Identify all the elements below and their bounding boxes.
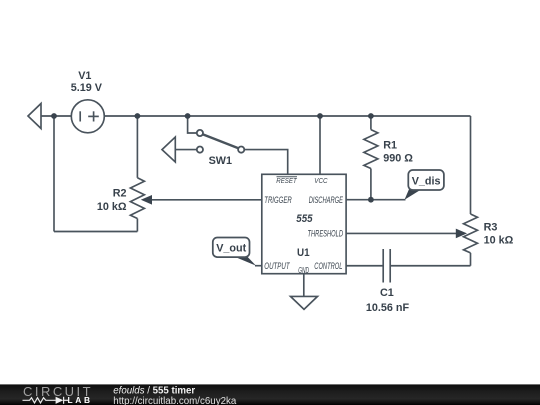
logo resistor zigzag [23, 397, 69, 404]
wire R3 bottom leg [470, 253, 472, 266]
wire R1 bottom leg [370, 169, 372, 200]
svg-text:R1: R1 [383, 140, 397, 152]
switch SW1 contact 1 [197, 130, 203, 136]
svg-text:http://circuitlab.com/c6uy2ka: http://circuitlab.com/c6uy2ka [113, 396, 236, 405]
resistor R3 zigzag [464, 214, 478, 253]
svg-text:DISCHARGE: DISCHARGE [309, 195, 344, 205]
wire OUTPUT stub [255, 265, 262, 267]
wire R2 top leg [136, 116, 138, 178]
RESET overline [277, 176, 298, 178]
junction node at flag/V1 [51, 113, 57, 119]
wire TRIGGER to R2 [149, 199, 262, 201]
switch SW1 blade [203, 134, 239, 148]
junction node R1 bottom [368, 197, 374, 203]
wire CONTROL to C1 [346, 265, 383, 267]
ground symbol [291, 296, 318, 309]
svg-text:C1: C1 [380, 287, 394, 299]
junction node R2 top [135, 113, 141, 119]
wiper arrow R3 [456, 229, 467, 239]
flag V_out [213, 238, 256, 266]
svg-text:TRIGGER: TRIGGER [264, 195, 292, 205]
svg-text:VCC: VCC [314, 178, 328, 185]
wire THRESHOLD to R3 [346, 232, 459, 234]
capacitor C1 plates [382, 249, 384, 283]
wire flag to SW1 [175, 149, 197, 151]
wire SW1 to RESET [244, 150, 287, 175]
svg-text:555: 555 [296, 213, 313, 225]
svg-text:10.56 nF: 10.56 nF [366, 302, 410, 314]
svg-text:SW1: SW1 [209, 155, 232, 167]
junction node R1 top [368, 113, 374, 119]
wire R1 top leg [370, 116, 372, 130]
junction node VCC [317, 113, 323, 119]
op-amp box U1 555 [262, 174, 346, 273]
wire flag to V1 [41, 115, 71, 117]
svg-text:5.19 V: 5.19 V [71, 82, 103, 94]
svg-text:GND: GND [298, 266, 309, 275]
wire top rail down right [470, 116, 472, 214]
wiper arrow R2 [141, 195, 152, 205]
svg-text:R2: R2 [113, 188, 127, 200]
svg-text:10 kΩ: 10 kΩ [484, 235, 514, 247]
svg-text:CONTROL: CONTROL [314, 261, 342, 271]
svg-text:990 Ω: 990 Ω [383, 153, 413, 165]
voltage source V1 [71, 100, 104, 133]
junction node SW1 top [185, 113, 191, 119]
flag left of V1 [28, 104, 41, 129]
resistor R1 zigzag [364, 130, 378, 169]
switch SW1 contact 3 [238, 147, 244, 153]
flag V_dis [405, 170, 444, 200]
wire SW1 drop [188, 116, 197, 133]
wire GND down [303, 274, 305, 297]
svg-text:OUTPUT: OUTPUT [264, 261, 290, 271]
svg-text:V_dis: V_dis [412, 175, 441, 187]
svg-text:RESET: RESET [276, 178, 297, 185]
svg-text:R3: R3 [484, 222, 498, 234]
svg-text:10 kΩ: 10 kΩ [97, 201, 127, 213]
wire left drop [53, 116, 55, 232]
resistor R2 zigzag [130, 178, 144, 219]
wire top rail [104, 115, 470, 117]
wire bottom left [54, 231, 137, 233]
svg-text:THRESHOLD: THRESHOLD [308, 229, 344, 239]
wire R2 bottom leg [136, 219, 138, 232]
logo diode triangle [56, 397, 64, 404]
wire C1 to R3 [390, 265, 470, 267]
svg-text:LAB: LAB [68, 395, 91, 405]
flag left of SW1 [162, 137, 175, 162]
svg-text:V1: V1 [78, 70, 91, 82]
svg-text:V_out: V_out [216, 243, 246, 255]
wire VCC up [319, 116, 321, 174]
switch SW1 contact 2 [197, 147, 203, 153]
wire DISCHARGE [346, 199, 405, 201]
svg-text:U1: U1 [297, 247, 310, 259]
